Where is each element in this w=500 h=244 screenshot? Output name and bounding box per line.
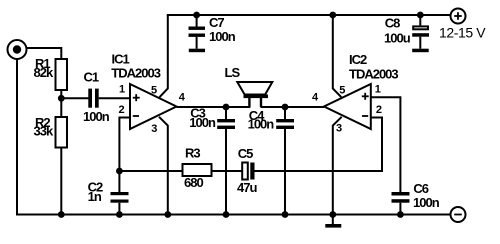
wire: IC1 pin2 to node B: [119, 118, 130, 172]
wire: IC2 pin1 to C6: [371, 97, 401, 192]
node: output right / C4 tap: [282, 104, 289, 111]
capacitor C3: [217, 107, 235, 129]
wire: C6 to bottom rail: [399, 203, 401, 215]
capacitor C8 electrolytic: [412, 15, 429, 49]
resistor R2: [56, 117, 68, 148]
svg-text:1: 1: [119, 83, 125, 95]
ground symbol on bottom rail: [325, 215, 341, 228]
loudspeaker LS: [237, 82, 272, 107]
svg-text:3: 3: [151, 123, 157, 135]
node: IC2 pin5 tap on V+ rail: [329, 12, 336, 19]
node: output left / C3 tap: [223, 104, 230, 111]
svg-text:100n: 100n: [248, 117, 275, 132]
svg-text:IC1: IC1: [112, 51, 130, 66]
wire: C2 to bottom rail: [118, 203, 120, 215]
node A junction R1/R2/C1: [58, 95, 65, 102]
capacitor C7: [189, 15, 206, 49]
node: C4 on ground rail: [282, 211, 289, 218]
ground bottom rail wire: [16, 214, 451, 216]
wire: node B to R3: [119, 170, 182, 172]
node: IC1 pin3 on ground rail: [164, 211, 171, 218]
node B junction pin2/C2/R3: [116, 168, 123, 175]
wire: C1 to IC1 pin1: [99, 97, 130, 99]
wire: node A to C1: [61, 97, 88, 99]
svg-text:5: 5: [151, 84, 157, 96]
wire: IC1 pin3 to ground rail: [159, 117, 168, 215]
svg-text:C8: C8: [385, 16, 400, 31]
svg-text:100n: 100n: [189, 115, 216, 130]
wire: jack down to bottom rail: [16, 59, 18, 215]
input jack K1: [8, 40, 27, 59]
capacitor C4: [276, 107, 294, 129]
wire: node A to R2: [60, 98, 62, 117]
svg-text:12-15 V: 12-15 V: [439, 25, 486, 41]
svg-text:2: 2: [119, 104, 125, 116]
V- supply terminal: [451, 207, 466, 222]
ground symbol at C8: [412, 49, 429, 53]
svg-text:C5: C5: [238, 146, 253, 161]
ground symbol at C7: [189, 49, 205, 53]
node: C7 tap on V+ rail: [193, 12, 200, 19]
wire: IC2 pin5 to V+ rail: [333, 15, 342, 97]
svg-text:1n: 1n: [88, 189, 102, 204]
wire: R1 to node A: [60, 90, 62, 98]
svg-text:100n: 100n: [83, 109, 110, 124]
svg-text:C1: C1: [84, 70, 99, 85]
wire: R3 to C5: [212, 170, 243, 172]
svg-text:1: 1: [375, 84, 381, 96]
wire: R2 to bottom rail: [60, 148, 62, 215]
svg-text:100n: 100n: [413, 195, 440, 210]
capacitor C5 electrolytic: [242, 163, 254, 180]
capacitor C6: [392, 192, 410, 203]
svg-text:680: 680: [184, 175, 203, 190]
wire: IC2 pin3 to ground rail: [333, 117, 342, 215]
wire: jack to R1 top: [27, 48, 62, 59]
wire: C4 to bottom rail: [284, 129, 286, 215]
node: C6 on ground rail: [397, 211, 404, 218]
svg-text:IC2: IC2: [349, 52, 367, 67]
svg-text:82k: 82k: [34, 65, 54, 80]
node: IC2 pin3 on ground rail: [329, 211, 336, 218]
wire: C5 to IC2 pin2: [255, 118, 383, 172]
op-amp IC1: [130, 84, 177, 129]
node: C8 tap on V+ rail: [417, 12, 424, 19]
node: C2 on ground rail: [116, 211, 123, 218]
svg-text:LS: LS: [225, 65, 241, 80]
svg-text:TDA2003: TDA2003: [349, 66, 398, 81]
svg-text:33k: 33k: [34, 124, 54, 139]
svg-text:100n: 100n: [209, 29, 236, 44]
svg-text:2: 2: [376, 104, 382, 116]
resistor R3: [183, 164, 212, 176]
svg-text:100u: 100u: [384, 30, 411, 45]
wire: node B to C2: [118, 171, 120, 192]
wire: IC1 pin5 to V+ rail: [160, 15, 168, 97]
node: C3 on ground rail: [223, 211, 230, 218]
node: R2 on ground rail: [58, 211, 65, 218]
V+ top rail wire: [167, 14, 451, 16]
capacitor C1: [88, 89, 98, 108]
capacitor C2: [111, 192, 129, 203]
svg-text:TDA2003: TDA2003: [111, 66, 160, 81]
svg-text:47u: 47u: [237, 180, 257, 195]
wire: C3 to bottom rail: [225, 129, 227, 215]
wire: IC1 pin4 output to LS: [177, 106, 251, 108]
op-amp IC2: [324, 84, 371, 129]
svg-text:C6: C6: [413, 181, 428, 196]
wire: LS to IC2 pin4 output: [261, 106, 325, 108]
svg-text:3: 3: [336, 123, 342, 135]
resistor R1: [56, 59, 68, 90]
svg-text:C7: C7: [209, 15, 224, 30]
V+ supply terminal: [451, 9, 466, 24]
svg-text:R3: R3: [185, 146, 200, 161]
